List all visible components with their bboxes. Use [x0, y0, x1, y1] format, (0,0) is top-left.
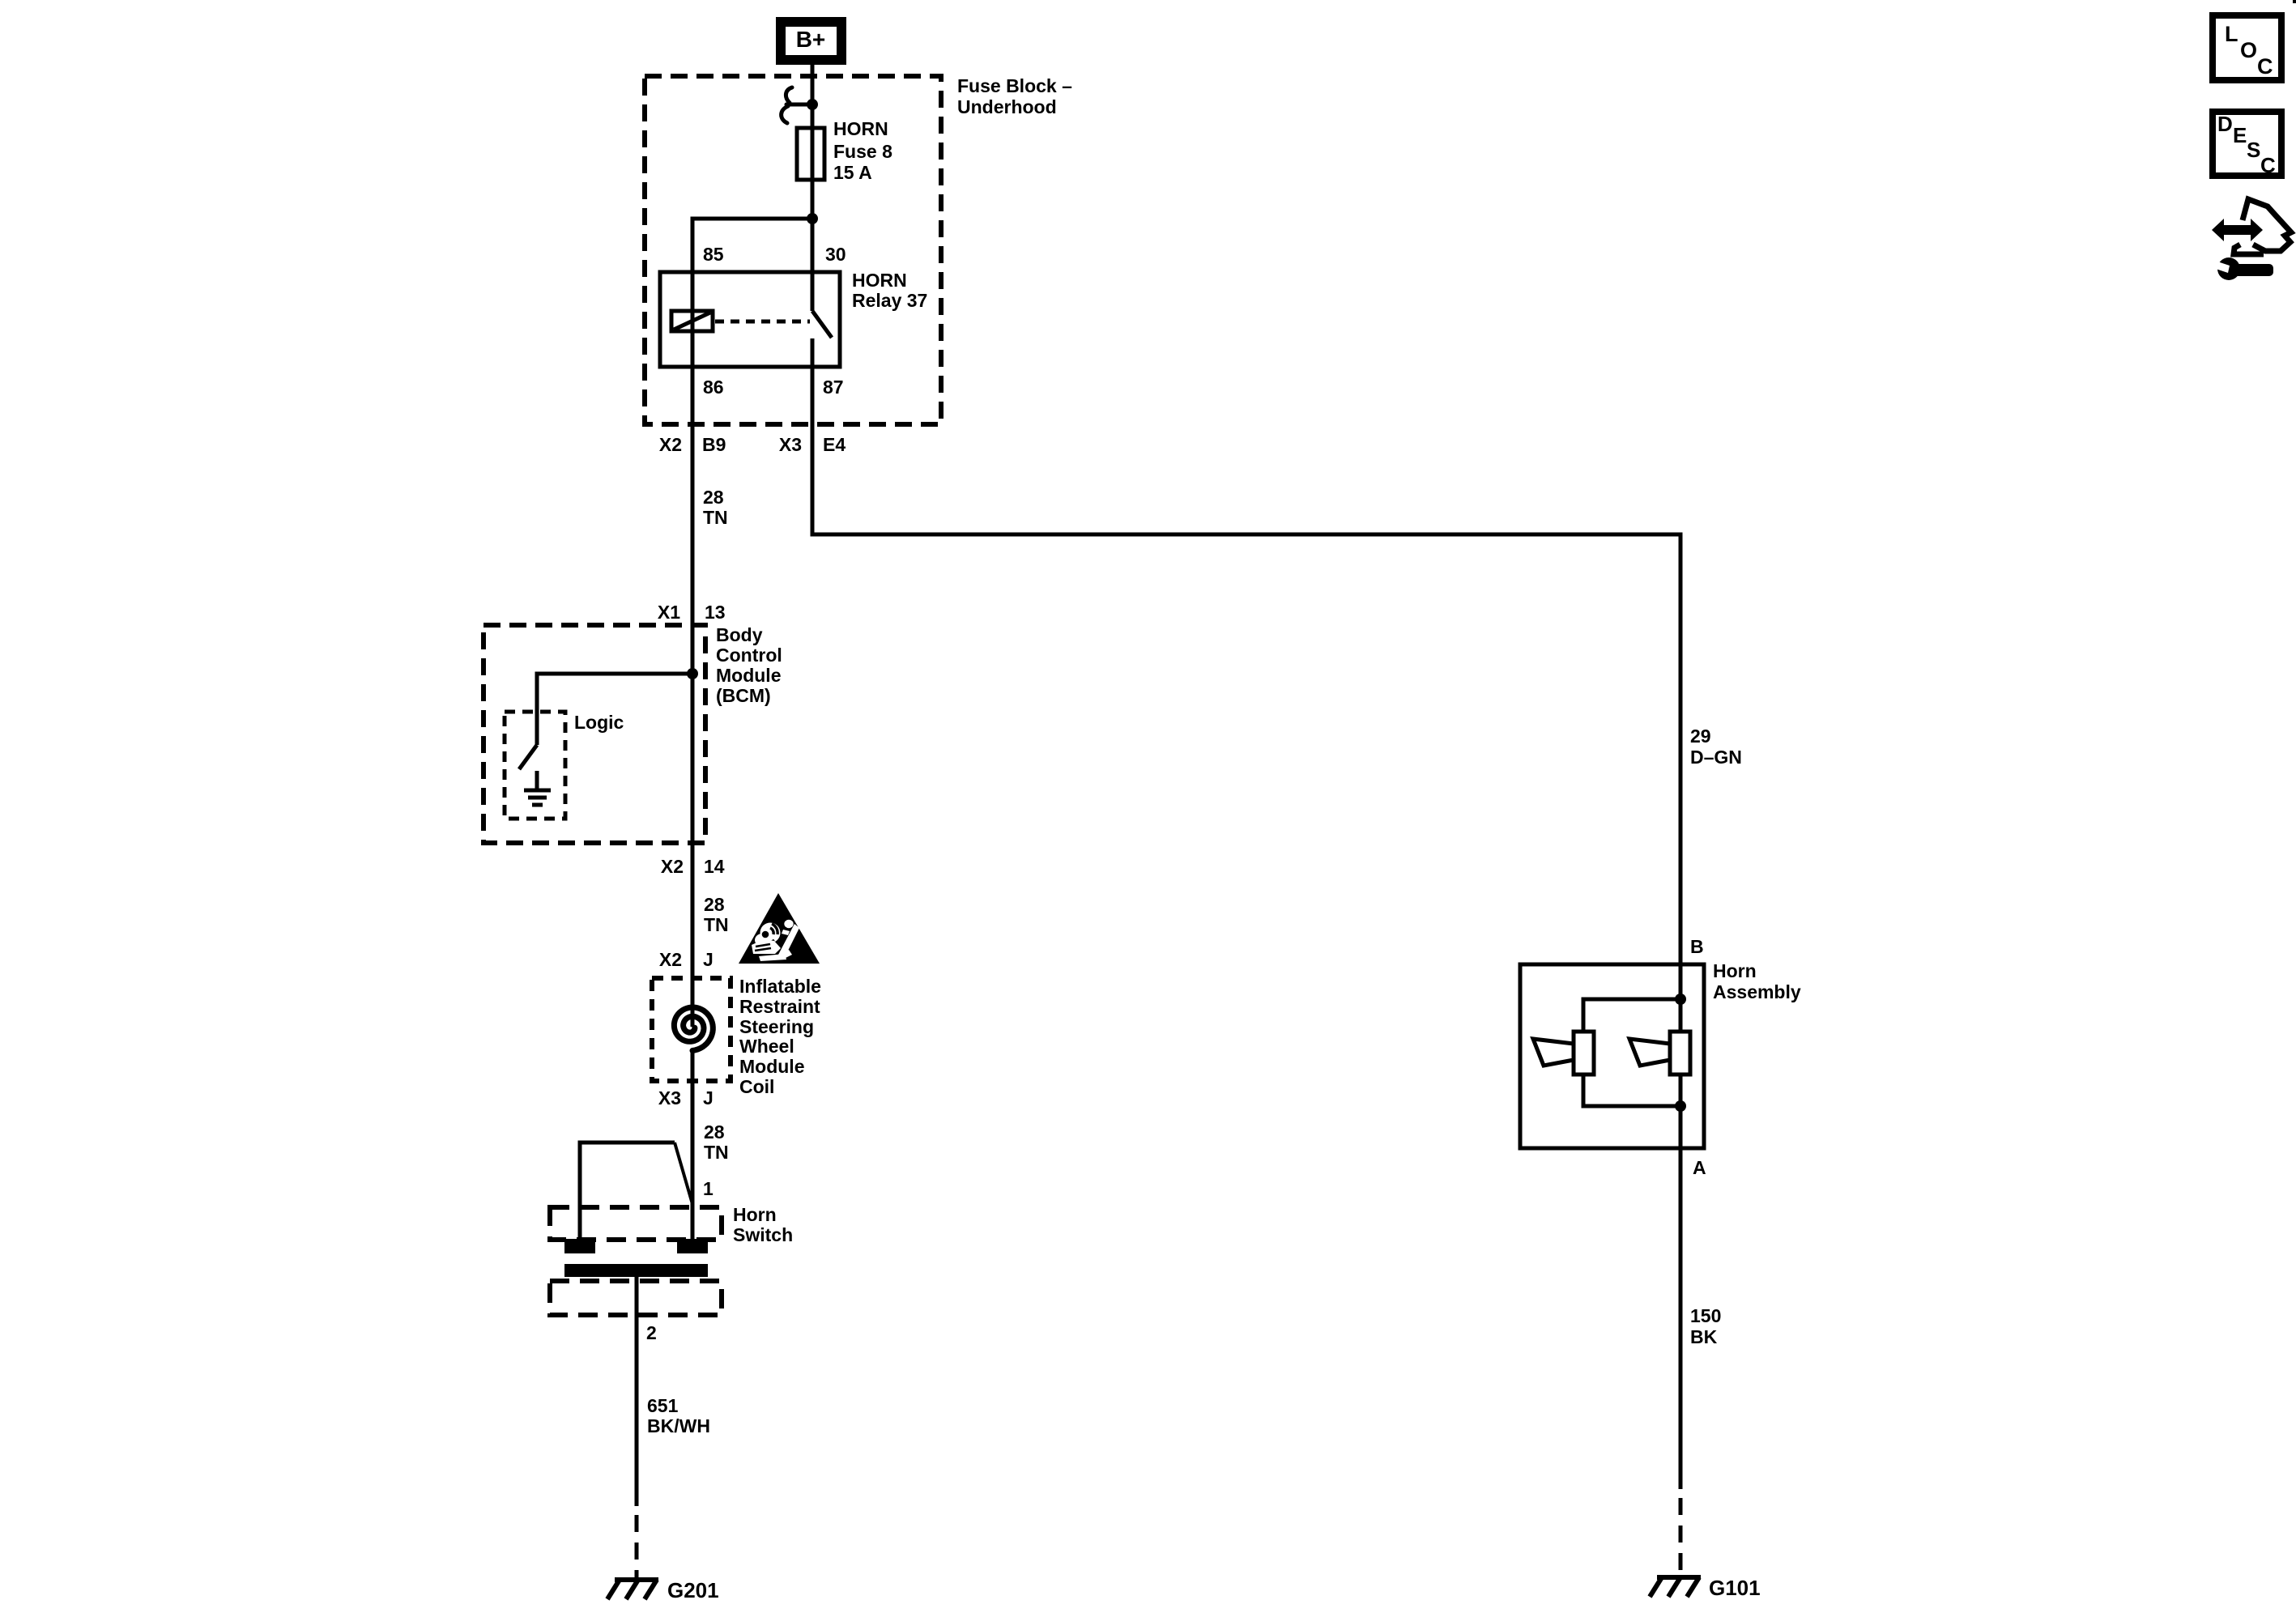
label Horn Switch — [733, 1204, 793, 1245]
dashed wire to G201 — [635, 1515, 639, 1579]
svg-text:X1: X1 — [658, 602, 680, 623]
logic dashed box — [505, 712, 565, 819]
fuse HORN Fuse 8 15A — [797, 128, 824, 180]
svg-text:X3: X3 — [779, 434, 802, 455]
horn assembly box — [1520, 964, 1704, 1148]
connector label X1 13 — [658, 602, 726, 623]
BCM signal ground — [524, 790, 551, 805]
B+ terminal — [776, 17, 846, 65]
svg-text:85: 85 — [703, 244, 724, 265]
junction node BCM — [687, 668, 698, 679]
svg-text:29: 29 — [1690, 726, 1711, 747]
BCM switch blade — [519, 745, 537, 769]
svg-text:Fuse Block –: Fuse Block – — [957, 75, 1072, 96]
svg-text:Relay 37: Relay 37 — [852, 290, 927, 311]
svg-text:86: 86 — [703, 377, 724, 398]
relay switch pin87 stub — [811, 338, 815, 367]
svg-text:Inflatable: Inflatable — [739, 976, 821, 997]
label Horn Assembly — [1713, 960, 1801, 1002]
svg-text:14: 14 — [704, 856, 725, 877]
svg-text:15 A: 15 A — [833, 162, 872, 183]
svg-text:28: 28 — [703, 487, 724, 508]
battery feed squiggle — [782, 87, 812, 123]
wrench icon — [2213, 257, 2273, 280]
svg-text:Control: Control — [716, 645, 782, 666]
svg-text:30: 30 — [825, 244, 846, 265]
svg-text:J: J — [703, 949, 714, 970]
SIR caution triangle — [739, 893, 820, 964]
junction node at fuse top — [807, 99, 818, 110]
svg-text:B9: B9 — [702, 434, 726, 455]
svg-text:Horn: Horn — [733, 1204, 777, 1225]
svg-text:BK/WH: BK/WH — [647, 1415, 710, 1436]
svg-text:BK: BK — [1690, 1326, 1718, 1347]
relay coil wire pin85 to coil — [691, 272, 695, 367]
BCM ground stub — [535, 771, 539, 790]
svg-text:O: O — [2240, 38, 2257, 62]
junction node below fuse — [807, 213, 818, 224]
DESC icon — [2213, 112, 2281, 177]
LOC icon — [2213, 15, 2281, 80]
svg-text:Body: Body — [716, 624, 763, 645]
connector label X3 E4 — [779, 434, 846, 455]
svg-text:HORN: HORN — [833, 118, 888, 139]
wire to G201 — [635, 1277, 639, 1506]
wire label 651 BK/WH — [647, 1395, 710, 1436]
wire through horns — [1679, 964, 1683, 1148]
wire pin86 to connector B9 — [691, 367, 695, 1027]
connector label X2 J — [659, 949, 714, 970]
label Inflatable Restraint Steering Wheel Module Coil — [739, 976, 821, 1097]
svg-text:C: C — [2257, 54, 2273, 79]
wire coil to horn switch — [691, 1050, 695, 1241]
svg-text:Restraint: Restraint — [739, 996, 820, 1017]
svg-text:G101: G101 — [1709, 1576, 1761, 1600]
svg-text:Logic: Logic — [574, 712, 624, 733]
label Fuse Block Underhood — [957, 75, 1072, 117]
svg-text:G201: G201 — [667, 1578, 719, 1602]
svg-text:13: 13 — [705, 602, 726, 623]
svg-text:28: 28 — [704, 894, 725, 915]
svg-text:X2: X2 — [659, 434, 682, 455]
junction node bottom — [1675, 1100, 1686, 1112]
wire pin87 down right and across — [812, 367, 1680, 964]
ground G201 — [607, 1580, 658, 1599]
dashed wire to G101 — [1679, 1498, 1683, 1577]
svg-text:HORN: HORN — [852, 270, 907, 291]
relay coil — [671, 311, 713, 331]
relay switch pin30 stub — [811, 272, 815, 311]
svg-text:Underhood: Underhood — [957, 96, 1057, 117]
wire label 28 TN — [704, 894, 729, 935]
svg-text:Assembly: Assembly — [1713, 981, 1801, 1002]
relay actuator dashed link — [715, 320, 810, 324]
svg-text:E: E — [2233, 123, 2247, 147]
horn switch bridge wire — [580, 1143, 675, 1239]
svg-text:87: 87 — [823, 377, 844, 398]
wire label 150 BK — [1690, 1305, 1721, 1347]
svg-text:Steering: Steering — [739, 1016, 814, 1037]
svg-text:X3: X3 — [658, 1087, 681, 1108]
svg-text:B: B — [1690, 936, 1704, 957]
svg-text:(BCM): (BCM) — [716, 685, 771, 706]
svg-text:150: 150 — [1690, 1305, 1721, 1326]
svg-text:Coil: Coil — [739, 1076, 774, 1097]
corner scan mark — [2293, 0, 2296, 3]
BCM dashed box — [483, 625, 705, 843]
svg-text:TN: TN — [704, 1142, 729, 1163]
wire horn to G101 — [1679, 1148, 1683, 1489]
wire fuse to relay pin 30 — [811, 180, 815, 272]
svg-text:S: S — [2247, 138, 2260, 162]
steering wheel clockspring coil spiral — [674, 1007, 713, 1051]
label Body Control Module BCM — [716, 624, 782, 706]
service info arrow icon — [2212, 199, 2291, 254]
svg-text:X2: X2 — [661, 856, 684, 877]
wire label 28 TN — [703, 487, 728, 528]
relay switch blade — [812, 311, 832, 338]
wire label 28 TN — [704, 1121, 729, 1163]
lower connector dashed box — [550, 1281, 722, 1315]
svg-text:A: A — [1693, 1157, 1706, 1178]
horn 2 element — [1629, 1032, 1690, 1074]
svg-text:Switch: Switch — [733, 1224, 793, 1245]
svg-text:E4: E4 — [823, 434, 846, 455]
connector label X3 J — [658, 1087, 714, 1108]
relay HORN Relay 37 box — [660, 272, 840, 367]
ground G101 — [1650, 1577, 1701, 1597]
horn 1 element — [1533, 1032, 1594, 1074]
connector label X2 14 — [661, 856, 725, 877]
horn switch dashed box — [550, 1207, 722, 1240]
svg-text:2: 2 — [646, 1322, 657, 1343]
svg-text:Module: Module — [739, 1056, 805, 1077]
horn switch contact left — [564, 1239, 595, 1253]
horn switch common bar — [564, 1264, 708, 1277]
svg-text:28: 28 — [704, 1121, 725, 1143]
svg-text:Wheel: Wheel — [739, 1036, 794, 1057]
svg-text:Horn: Horn — [1713, 960, 1757, 981]
svg-text:Module: Module — [716, 665, 782, 686]
horn switch contact right — [677, 1239, 708, 1253]
wire label 29 D-GN — [1690, 726, 1742, 768]
svg-text:651: 651 — [647, 1395, 679, 1416]
wire B+ to fuse — [811, 65, 815, 180]
junction node top — [1675, 994, 1686, 1005]
wire branch to pin 85 — [692, 219, 812, 272]
SRS coil dashed box — [652, 978, 731, 1081]
svg-text:D: D — [2217, 112, 2233, 136]
svg-text:L: L — [2225, 22, 2238, 46]
svg-text:1: 1 — [703, 1178, 714, 1199]
svg-text:C: C — [2260, 153, 2276, 177]
svg-text:J: J — [703, 1087, 714, 1108]
svg-text:X2: X2 — [659, 949, 682, 970]
svg-text:B+: B+ — [796, 27, 826, 52]
svg-text:D–GN: D–GN — [1690, 747, 1742, 768]
BCM internal wire — [537, 674, 692, 745]
horn assembly internal branch — [1583, 999, 1680, 1032]
fuse block underhood dashed box — [645, 76, 941, 424]
horn switch diagonal wire — [675, 1143, 692, 1204]
connector label X2 B9 — [659, 434, 726, 455]
svg-text:TN: TN — [704, 914, 729, 935]
svg-text:TN: TN — [703, 507, 728, 528]
svg-text:Fuse 8: Fuse 8 — [833, 141, 892, 162]
